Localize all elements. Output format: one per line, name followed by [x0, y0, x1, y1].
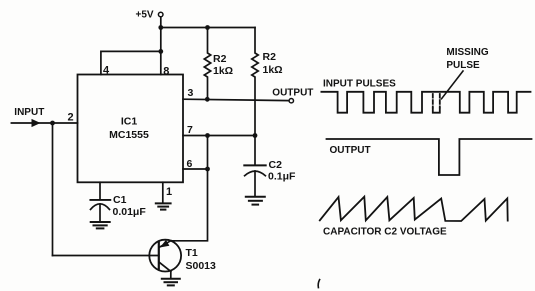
node +5V terminal circle	[158, 12, 163, 17]
capacitor C2	[244, 136, 265, 197]
svg-text:INPUT PULSES: INPUT PULSES	[323, 79, 396, 90]
ink speck	[318, 280, 319, 288]
wire pin 6	[183, 168, 208, 170]
svg-text:R2: R2	[213, 53, 227, 65]
svg-text:IC1: IC1	[121, 116, 138, 128]
resistor R2 (right)	[252, 28, 258, 136]
wire top supply rail	[161, 27, 255, 29]
svg-text:T1: T1	[186, 247, 198, 259]
junction pin 8 line to pin 4 branch	[158, 49, 163, 54]
junction input node	[50, 121, 55, 126]
svg-text:MC1555: MC1555	[109, 129, 149, 141]
svg-text:7: 7	[187, 124, 193, 136]
svg-text:3: 3	[188, 87, 194, 99]
missing pulse (dashed)	[433, 94, 440, 113]
svg-text:+5V: +5V	[136, 10, 154, 21]
IC U1 body MC1555	[78, 75, 184, 183]
wire input node down left side	[52, 123, 54, 256]
wire pin7 node down to transistor emitter	[171, 136, 208, 241]
svg-text:0.01μF: 0.01μF	[113, 206, 147, 218]
svg-text:4: 4	[103, 65, 110, 77]
svg-text:1kΩ: 1kΩ	[263, 64, 283, 76]
wire pin 1 to ground	[162, 182, 164, 203]
wire input to pin 2	[11, 122, 77, 124]
waveform input pulses	[321, 92, 530, 113]
svg-text:0.1μF: 0.1μF	[268, 170, 296, 182]
svg-text:C1: C1	[113, 194, 127, 206]
wire pin 4 branch	[101, 51, 161, 74]
svg-text:8: 8	[163, 65, 169, 77]
junction pin 6	[205, 167, 210, 172]
svg-text:C2: C2	[269, 159, 283, 171]
input arrow	[32, 119, 41, 127]
transistor Q1 T1	[149, 240, 181, 278]
junction +5V rail	[158, 25, 163, 30]
ground (C1)	[91, 222, 110, 228]
svg-text:1kΩ: 1kΩ	[213, 65, 233, 77]
wire pin 3 to output terminal	[183, 99, 289, 100]
svg-text:PULSE: PULSE	[446, 60, 480, 71]
svg-text:OUTPUT: OUTPUT	[330, 145, 371, 156]
junction pin7, right R2 and C2	[253, 133, 258, 138]
pointer line to missing pulse	[442, 71, 464, 99]
svg-text:2: 2	[68, 112, 74, 124]
svg-text:1: 1	[166, 186, 172, 198]
waveform output	[327, 139, 532, 175]
svg-text:OUTPUT: OUTPUT	[272, 88, 313, 99]
svg-text:CAPACITOR C2 VOLTAGE: CAPACITOR C2 VOLTAGE	[323, 227, 447, 238]
wire +5V terminal to pin 8	[160, 17, 162, 74]
svg-text:INPUT: INPUT	[14, 107, 44, 118]
waveform capacitor C2 voltage (sawtooth)	[320, 197, 508, 221]
wire to transistor base	[53, 255, 159, 257]
resistor R2 (left)	[204, 28, 210, 100]
junction pin3 and left R2	[205, 97, 210, 102]
svg-text:MISSING: MISSING	[446, 47, 488, 58]
node OUTPUT terminal circle	[289, 99, 293, 103]
svg-text:S0013: S0013	[186, 260, 217, 272]
capacitor C1	[90, 182, 110, 221]
wire pin 7	[183, 135, 255, 137]
svg-text:R2: R2	[263, 51, 277, 63]
ground (C2)	[246, 197, 265, 205]
junction rail to left R2	[205, 25, 210, 30]
ground (pin 1)	[156, 203, 171, 209]
junction pin 7 node	[205, 133, 210, 138]
ground (transistor emitter-collector)	[162, 279, 180, 286]
